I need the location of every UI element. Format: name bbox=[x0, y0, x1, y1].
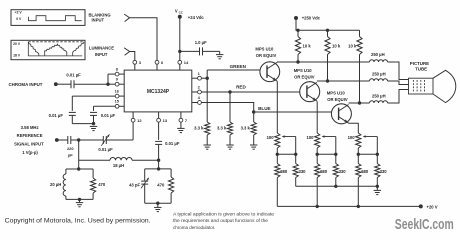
svg-text:OR EQUIV: OR EQUIV bbox=[327, 97, 348, 102]
svg-text:3.3 k: 3.3 k bbox=[217, 126, 227, 131]
svg-text:RED: RED bbox=[236, 84, 246, 89]
svg-text:13: 13 bbox=[163, 118, 168, 123]
svg-text:16: 16 bbox=[115, 89, 119, 93]
svg-text:+20 V: +20 V bbox=[427, 204, 438, 209]
svg-text:470: 470 bbox=[98, 182, 106, 187]
svg-text:0.01 µF: 0.01 µF bbox=[101, 113, 116, 118]
svg-text:3.58 MHz: 3.58 MHz bbox=[21, 125, 39, 130]
svg-text:GREEN: GREEN bbox=[230, 64, 247, 69]
svg-text:MPS U10: MPS U10 bbox=[255, 47, 274, 52]
svg-text:12: 12 bbox=[137, 118, 142, 123]
svg-text:CHROMA INPUT: CHROMA INPUT bbox=[9, 82, 43, 87]
svg-text:the requirements and output fu: the requirements and output functions of… bbox=[173, 218, 269, 223]
svg-text:MPS U10: MPS U10 bbox=[327, 91, 346, 96]
svg-text:LUMINANCE: LUMINANCE bbox=[89, 46, 114, 51]
svg-text:1 V(p-p): 1 V(p-p) bbox=[22, 150, 38, 155]
svg-text:100: 100 bbox=[348, 135, 356, 140]
svg-text:SeekIC.com: SeekIC.com bbox=[395, 216, 454, 233]
svg-text:+24 Vdc: +24 Vdc bbox=[188, 15, 205, 20]
svg-text:330: 330 bbox=[299, 169, 307, 174]
svg-text:250 µH: 250 µH bbox=[372, 71, 386, 76]
svg-text:PICTURE: PICTURE bbox=[410, 61, 429, 66]
svg-text:10 k: 10 k bbox=[332, 43, 341, 48]
svg-text:A typical application is given: A typical application is given above to … bbox=[173, 211, 275, 216]
svg-text:REFERENCE: REFERENCE bbox=[17, 133, 43, 138]
svg-text:680: 680 bbox=[361, 169, 369, 174]
svg-text:TUBE: TUBE bbox=[415, 67, 427, 72]
svg-text:18 µH: 18 µH bbox=[113, 163, 124, 168]
svg-text:330: 330 bbox=[339, 169, 347, 174]
svg-text:V: V bbox=[175, 8, 178, 13]
svg-text:100: 100 bbox=[267, 135, 275, 140]
svg-text:<2 V: <2 V bbox=[15, 11, 23, 15]
svg-text:470: 470 bbox=[157, 183, 165, 188]
svg-text:9: 9 bbox=[116, 77, 118, 81]
svg-text:3.3 k: 3.3 k bbox=[241, 126, 251, 131]
svg-text:Copyright of Motorola, Inc. Us: Copyright of Motorola, Inc. Used by perm… bbox=[5, 217, 151, 224]
svg-text:0.01 µF: 0.01 µF bbox=[98, 147, 113, 152]
svg-text:0.01 µF: 0.01 µF bbox=[66, 72, 81, 77]
svg-text:BLUE: BLUE bbox=[258, 106, 271, 111]
svg-text:0.01 µF: 0.01 µF bbox=[165, 141, 180, 146]
svg-text:chroma demodulator.: chroma demodulator. bbox=[173, 225, 215, 230]
svg-text:18 V: 18 V bbox=[13, 53, 21, 57]
svg-text:3.3 k: 3.3 k bbox=[194, 126, 204, 131]
svg-text:10 k: 10 k bbox=[348, 43, 357, 48]
svg-text:+250 Vdc: +250 Vdc bbox=[302, 15, 321, 20]
svg-text:MPS U10: MPS U10 bbox=[294, 68, 313, 73]
svg-text:220: 220 bbox=[67, 146, 74, 151]
svg-text:0.01 µF: 0.01 µF bbox=[49, 113, 64, 118]
svg-text:MC1324P: MC1324P bbox=[147, 89, 170, 95]
svg-text:OR EQUIV: OR EQUIV bbox=[256, 53, 277, 58]
svg-text:680: 680 bbox=[320, 169, 328, 174]
svg-text:INPUT: INPUT bbox=[92, 18, 105, 23]
svg-text:SIGNAL INPUT: SIGNAL INPUT bbox=[14, 142, 44, 147]
svg-text:100: 100 bbox=[307, 135, 315, 140]
svg-text:20 µH: 20 µH bbox=[50, 182, 61, 187]
svg-text:OR EQUIV: OR EQUIV bbox=[294, 74, 315, 79]
svg-text:0 V: 0 V bbox=[16, 17, 22, 21]
svg-text:1.0 µF: 1.0 µF bbox=[195, 40, 207, 45]
svg-text:pF: pF bbox=[68, 152, 73, 157]
svg-text:250 µH: 250 µH bbox=[372, 93, 386, 98]
svg-text:680: 680 bbox=[280, 169, 288, 174]
svg-text:14: 14 bbox=[184, 60, 189, 65]
svg-text:250 µH: 250 µH bbox=[371, 52, 385, 57]
svg-text:330: 330 bbox=[380, 169, 388, 174]
svg-text:8: 8 bbox=[116, 67, 118, 71]
svg-text:15: 15 bbox=[115, 100, 119, 104]
svg-text:INPUT: INPUT bbox=[95, 52, 108, 57]
svg-text:20 V: 20 V bbox=[13, 42, 21, 46]
svg-text:43 pF: 43 pF bbox=[129, 183, 140, 188]
svg-text:10 k: 10 k bbox=[303, 43, 312, 48]
